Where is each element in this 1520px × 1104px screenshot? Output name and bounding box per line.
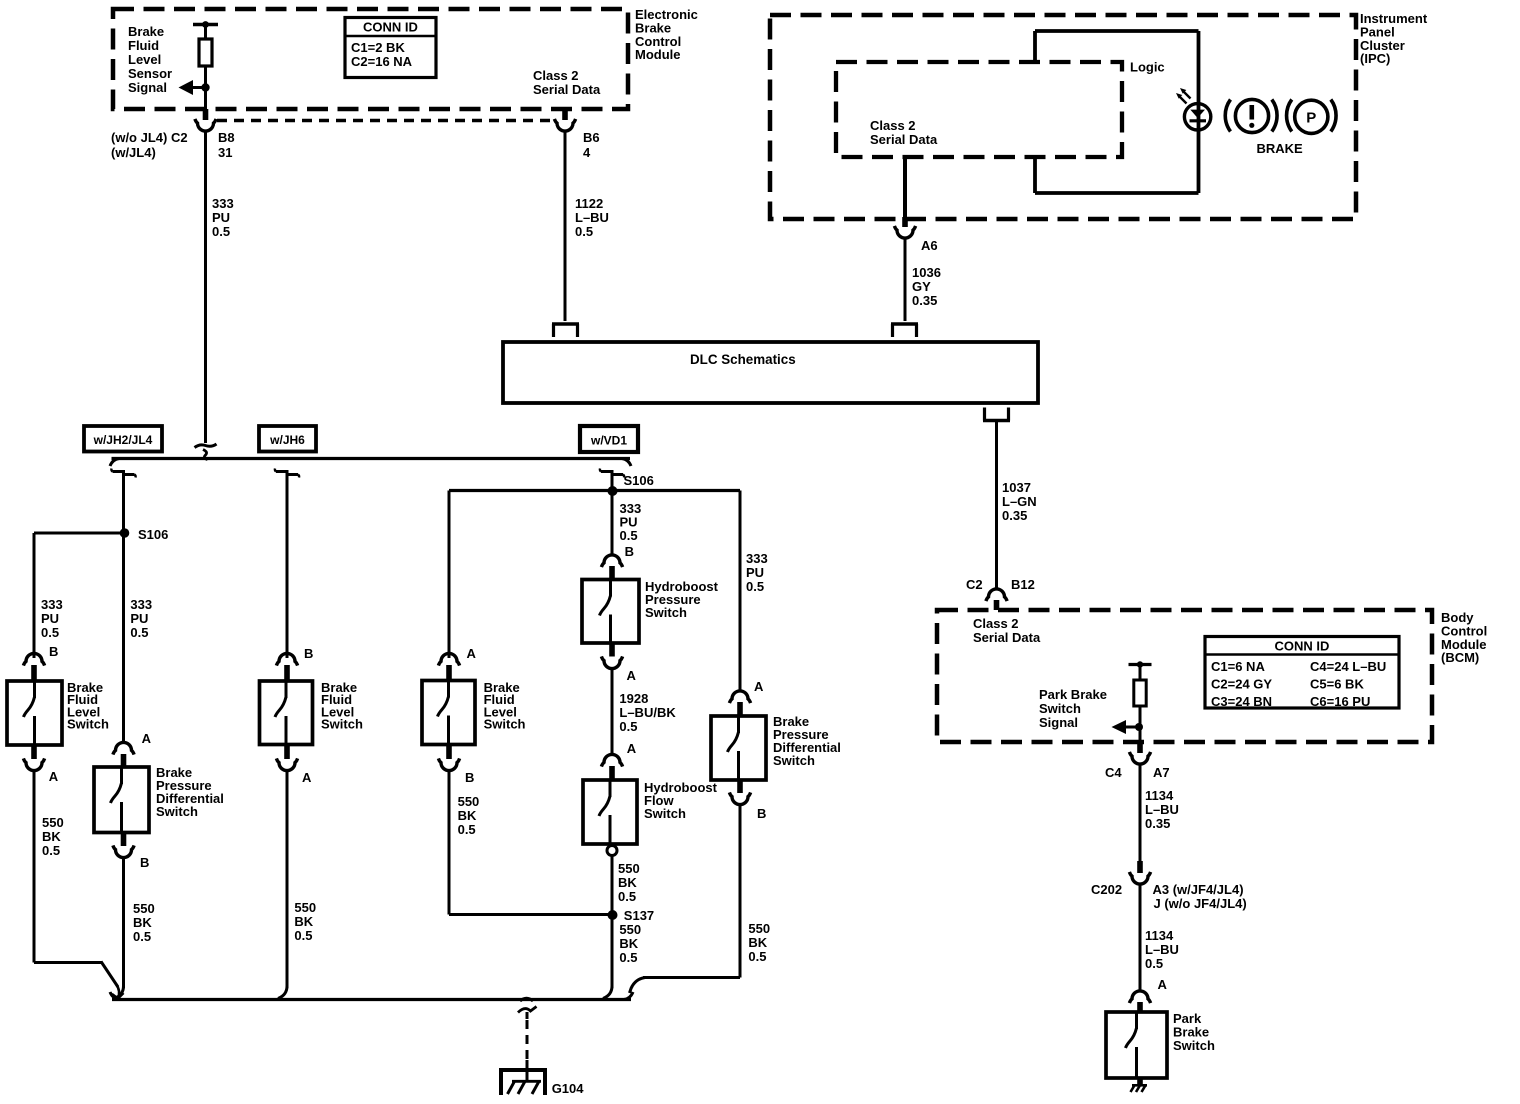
svg-text:B8: B8 (218, 130, 235, 145)
wire to resistor (1139, 665, 1142, 681)
splice S106 (right) (608, 486, 618, 496)
wire: circuit 1134 L-BU 0.35 from BCM to C202 (1139, 764, 1142, 861)
wire: S106 arm to left branch and right branch (449, 489, 740, 492)
open terminal circle at hydroboost flow switch pin (607, 846, 617, 856)
wire: 333 PU from S106 down to BPDS (left) (122, 533, 125, 744)
svg-text:A: A (142, 731, 152, 746)
svg-text:PU: PU (130, 611, 148, 626)
terminal tick at top of EBCM sensor line (193, 23, 218, 26)
svg-text:Switch: Switch (644, 806, 686, 821)
pin stub (1137, 742, 1143, 753)
svg-text:Sensor: Sensor (128, 66, 172, 81)
svg-text:A: A (49, 769, 59, 784)
connector arc: BCM connector C2 pin B12 (986, 589, 1007, 601)
ground stub below park brake switch (1137, 1078, 1143, 1086)
svg-text:L–BU/BK: L–BU/BK (619, 705, 676, 720)
svg-text:Signal: Signal (1039, 715, 1078, 730)
indicator symbol: ((!)) brake warning (1225, 100, 1230, 132)
svg-text:w/VD1: w/VD1 (590, 434, 627, 448)
svg-text:Switch: Switch (484, 717, 526, 732)
svg-text:w/JH6: w/JH6 (269, 433, 305, 447)
wire: right branch 333 PU down to BPDS (right) (739, 491, 742, 693)
resistor: park brake switch pull-up inside BCM (1134, 680, 1146, 706)
bus drop hook under w/VD1 (601, 470, 614, 473)
wire from resistor to signal node (204, 66, 207, 109)
svg-text:PU: PU (212, 210, 230, 225)
switch: Brake Fluid Level Switch (1) (7, 681, 62, 745)
connector arc: IPC pin A6 (894, 226, 915, 238)
connector arc: brake pressure differential switch (left) pin B (113, 845, 134, 857)
indicator symbol: ((P)) park brake (1287, 100, 1292, 132)
connector arc: EBCM C2 pin B8 (195, 119, 216, 131)
svg-text:C4=24 L–BU: C4=24 L–BU (1310, 659, 1386, 674)
svg-text:550: 550 (618, 861, 640, 876)
svg-text:0.5: 0.5 (212, 224, 230, 239)
svg-text:550: 550 (748, 921, 770, 936)
svg-text:0.5: 0.5 (746, 579, 764, 594)
svg-text:L–BU: L–BU (575, 210, 609, 225)
connector arc: brake fluid level switch 2 pin A (276, 758, 297, 770)
svg-text:A: A (1158, 977, 1168, 992)
svg-text:BK: BK (458, 808, 477, 823)
svg-text:B: B (757, 806, 766, 821)
connector arc: BCM connector C4 pin A7 (1129, 752, 1150, 764)
svg-text:0.5: 0.5 (294, 928, 312, 943)
wire: circuit 1037 L-GN 0.35 from DLC to BCM (995, 421, 998, 590)
svg-text:B12: B12 (1011, 577, 1035, 592)
pin stub (609, 566, 615, 580)
option tag box: w/JH6 (259, 426, 316, 452)
wire: circuit 1134 L-BU 0.5 from C202 to park brake switch (1139, 884, 1142, 991)
svg-text:A: A (302, 770, 312, 785)
wire: circuit 1122 L-BU 0.5 from EBCM pin B6 to DLC (564, 131, 567, 321)
svg-text:0.5: 0.5 (748, 949, 766, 964)
svg-text:Logic: Logic (1130, 60, 1165, 75)
svg-text:1122: 1122 (575, 196, 603, 211)
pin stub (31, 745, 37, 759)
svg-text:G104: G104 (552, 1081, 585, 1096)
svg-text:Serial Data: Serial Data (533, 82, 601, 97)
connector arc: brake fluid level switch 3 pin B (438, 758, 459, 770)
wire: circuit 550 BK 0.5 from switch 3 to splice S137 (448, 770, 451, 915)
svg-text:0.5: 0.5 (619, 719, 637, 734)
wire: 333 PU drop under w/JH2/JL4 to S106 (122, 472, 125, 534)
pin stub (994, 600, 1000, 610)
svg-text:Switch: Switch (1173, 1038, 1215, 1053)
terminal bracket: DLC output to BCM (983, 419, 1010, 422)
svg-text:B: B (465, 770, 474, 785)
logic block outline inside IPC (1035, 29, 1199, 33)
svg-text:(w/o JL4) C2: (w/o JL4) C2 (111, 130, 188, 145)
svg-text:C4: C4 (1105, 765, 1122, 780)
wire: circuit 550 BK 0.5 from S137 to ground bus (611, 915, 614, 988)
connector arc: hydroboost pressure switch pin A (601, 656, 622, 668)
svg-text:B: B (304, 646, 313, 661)
svg-text:DLC Schematics: DLC Schematics (690, 352, 796, 367)
wire from terminal to resistor (204, 25, 207, 40)
pin stub (284, 745, 290, 760)
in-line connector C202 pin stub (1137, 861, 1143, 873)
pin stub (1137, 1002, 1143, 1012)
switch: Brake Pressure Differential Switch (left) (94, 767, 149, 833)
svg-text:550: 550 (42, 815, 64, 830)
svg-text:C2: C2 (966, 577, 983, 592)
svg-text:GY: GY (912, 279, 931, 294)
bus gather squiggle to ground wire (520, 998, 533, 1001)
pin stub (737, 780, 743, 793)
option tag box: w/JH2/JL4 (84, 426, 162, 452)
svg-text:B6: B6 (583, 130, 600, 145)
connector face line (dotted) of EBCM connector (217, 119, 553, 122)
svg-text:A: A (754, 679, 764, 694)
wire: Class 2 Serial Data inside IPC down to pin A6 (903, 157, 907, 217)
svg-text:Class 2: Class 2 (533, 68, 579, 83)
svg-text:1928: 1928 (619, 691, 648, 706)
svg-text:333: 333 (41, 597, 63, 612)
svg-text:Switch: Switch (773, 753, 815, 768)
inner dashed box: Class 2 Serial Data block in IPC (836, 62, 1122, 157)
svg-text:Signal: Signal (128, 80, 167, 95)
module box: Instrument Panel Cluster (IPC), dashed outline (770, 15, 1356, 219)
svg-text:(BCM): (BCM) (1441, 650, 1479, 665)
chassis ground marks under park brake switch (1132, 1084, 1147, 1087)
wire (dashed): ground lead to G104 (526, 1020, 529, 1066)
svg-text:0.5: 0.5 (620, 528, 638, 543)
bus end curl left (ground bus) (110, 992, 119, 1000)
svg-text:Module: Module (635, 47, 681, 62)
svg-text:PU: PU (41, 611, 59, 626)
svg-text:B: B (49, 644, 58, 659)
svg-text:S106: S106 (138, 527, 168, 542)
switch: Brake Fluid Level Switch (3) (422, 681, 475, 745)
svg-text:0.5: 0.5 (619, 950, 637, 965)
svg-text:A3 (w/JF4/JL4): A3 (w/JF4/JL4) (1153, 882, 1244, 897)
pin stub (31, 665, 37, 681)
svg-text:0.35: 0.35 (1002, 508, 1027, 523)
conn-id table: BCM CONN ID (1205, 637, 1399, 709)
wire: circuit 1928 L-BU/BK 0.5 between hydroboost switches (611, 668, 614, 756)
resistor: brake fluid level sensor pull-up inside EBCM (199, 39, 212, 66)
svg-text:Class 2: Class 2 (870, 118, 916, 133)
junction dot on sensor signal node (201, 83, 209, 91)
connector arc: brake fluid level switch 3 pin A (438, 653, 459, 665)
svg-text:C1=6 NA: C1=6 NA (1211, 659, 1265, 674)
pin stub A6 at IPC (902, 217, 908, 227)
pin stub (609, 643, 615, 657)
svg-text:P: P (1306, 110, 1316, 127)
option tag box: w/VD1 (580, 426, 638, 452)
connector arc: brake fluid level switch 2 pin B (276, 653, 297, 665)
svg-text:Class 2: Class 2 (973, 616, 1019, 631)
bus wire: options bus (top) (112, 457, 631, 460)
connector arc: brake fluid level switch 1 pin B (23, 653, 44, 665)
svg-text:A6: A6 (921, 238, 938, 253)
connector arc: brake pressure differential switch (right) pin A (729, 691, 750, 703)
svg-text:0.5: 0.5 (133, 929, 151, 944)
pin stub B8 at EBCM (203, 109, 209, 120)
pin stub (609, 766, 615, 780)
switch: Hydroboost Flow Switch (583, 780, 637, 844)
svg-text:S106: S106 (624, 473, 654, 488)
connector arc: brake pressure differential switch (right) pin B (729, 792, 750, 804)
bus wire: ground bus (bottom) (112, 998, 631, 1001)
signal arrow: Park Brake Switch Signal (points left) (1122, 726, 1140, 729)
signal arrow: Brake Fluid Level Sensor Signal (points left) (190, 86, 206, 89)
svg-text:C1=2 BK: C1=2 BK (351, 40, 405, 55)
svg-text:BK: BK (42, 829, 61, 844)
svg-text:Switch: Switch (321, 717, 363, 732)
splice S106 (left) (120, 528, 130, 538)
svg-text:C5=6 BK: C5=6 BK (1310, 677, 1364, 692)
svg-text:Park Brake: Park Brake (1039, 687, 1107, 702)
svg-text:w/JH2/JL4: w/JH2/JL4 (93, 433, 153, 447)
wire: circuit 550 BK 0.5 from flow switch to S137 (611, 856, 614, 915)
splice S137 (608, 910, 618, 920)
svg-text:Level: Level (128, 52, 161, 67)
svg-text:0.5: 0.5 (458, 822, 476, 837)
svg-text:A: A (467, 646, 477, 661)
wire: circuit 333 PU 0.5 from EBCM pin B8 down to options bus (204, 131, 207, 443)
svg-text:A7: A7 (1153, 765, 1170, 780)
svg-text:BK: BK (294, 914, 313, 929)
svg-text:0.35: 0.35 (1145, 816, 1170, 831)
svg-text:550: 550 (133, 901, 155, 916)
svg-text:Brake: Brake (128, 24, 164, 39)
svg-text:0.35: 0.35 (912, 293, 937, 308)
svg-text:C2=24 GY: C2=24 GY (1211, 677, 1272, 692)
svg-text:L–BU: L–BU (1145, 802, 1179, 817)
svg-text:(IPC): (IPC) (1360, 51, 1390, 66)
svg-text:A: A (627, 741, 637, 756)
svg-text:(w/JL4): (w/JL4) (111, 145, 156, 160)
terminal bracket: 1036 GY into DLC (891, 322, 918, 325)
svg-text:0.5: 0.5 (41, 625, 59, 640)
switch: Brake Pressure Differential Switch (right) (711, 716, 766, 780)
svg-text:1134: 1134 (1145, 928, 1174, 943)
svg-text:L–BU: L–BU (1145, 942, 1179, 957)
switch: Brake Fluid Level Switch (2) (260, 681, 313, 745)
svg-text:Switch: Switch (67, 717, 109, 732)
svg-text:BK: BK (133, 915, 152, 930)
bus drop hook under w/JH2/JL4 (113, 470, 126, 473)
switch: Hydroboost Pressure Switch (582, 580, 639, 644)
svg-text:S137: S137 (624, 908, 654, 923)
switch: Park Brake Switch (1106, 1012, 1167, 1078)
svg-text:Serial Data: Serial Data (973, 630, 1041, 645)
svg-text:0.5: 0.5 (618, 889, 636, 904)
wire: circuit 550 BK 0.5 from BPDS (right) to ground bus (739, 804, 742, 978)
svg-text:333: 333 (130, 597, 152, 612)
indicator LED: brake warning lamp on logic block (1184, 104, 1210, 130)
svg-text:Serial Data: Serial Data (870, 132, 938, 147)
conn-id table: EBCM CONN ID (C1=2 BK, C2=16 NA) (345, 18, 436, 78)
wire: S106 branch left (34, 532, 125, 535)
terminal bracket: 1122 L-BU into DLC (552, 322, 579, 325)
wire: circuit 550 BK 0.5 from switch 1 to ground bus (33, 770, 36, 963)
module box: Electronic Brake Control Module (EBCM), dashed outline (113, 9, 628, 109)
wire: 333 PU from S106 down to hydroboost pressure switch (611, 491, 614, 556)
svg-text:L–GN: L–GN (1002, 494, 1037, 509)
svg-text:0.5: 0.5 (130, 625, 148, 640)
svg-text:C3=24 BN: C3=24 BN (1211, 694, 1272, 709)
ground G104 symbol (526, 1060, 529, 1081)
svg-text:Fluid: Fluid (128, 38, 159, 53)
bus end curl left (top bus) (110, 459, 119, 467)
svg-text:550: 550 (619, 922, 641, 937)
svg-text:550: 550 (294, 900, 316, 915)
junction dot on park brake signal node (1135, 723, 1143, 731)
svg-text:333: 333 (746, 551, 768, 566)
svg-text:A: A (627, 668, 637, 683)
svg-text:4: 4 (583, 145, 591, 160)
connector arc: hydroboost flow switch pin A (601, 754, 622, 766)
svg-text:BK: BK (618, 875, 637, 890)
svg-text:CONN ID: CONN ID (363, 20, 418, 35)
svg-text:B: B (140, 855, 149, 870)
svg-text:BK: BK (619, 936, 638, 951)
module box: Body Control Module (BCM), dashed outline (937, 610, 1432, 742)
svg-text:C202: C202 (1091, 882, 1122, 897)
wire: circuit 550 BK 0.5 from BPDS (left) to ground bus (122, 857, 125, 988)
svg-text:0.5: 0.5 (575, 224, 593, 239)
svg-text:Switch: Switch (645, 605, 687, 620)
svg-text:1037: 1037 (1002, 480, 1031, 495)
connector arc: brake pressure differential switch (left) pin A (113, 742, 134, 754)
svg-text:0.5: 0.5 (42, 843, 60, 858)
wire: left branch down to brake fluid level switch 3 (448, 491, 451, 659)
bus end curl right (ground bus) (624, 992, 633, 1000)
svg-text:C6=16 PU: C6=16 PU (1310, 694, 1370, 709)
terminal tick at top of park brake sense line (1129, 663, 1152, 666)
svg-text:1036: 1036 (912, 265, 941, 280)
pin stub (284, 665, 290, 681)
svg-text:Switch: Switch (1039, 701, 1081, 716)
svg-text:BK: BK (748, 935, 767, 950)
pin stub (121, 833, 127, 847)
wire: circuit 1036 GY 0.35 from IPC A6 to DLC (904, 238, 907, 321)
svg-text:C2=16 NA: C2=16 NA (351, 54, 413, 69)
connector arc: brake fluid level switch 1 pin A (23, 758, 44, 770)
LED arrows (light emission) (1180, 97, 1187, 104)
pin stub (121, 754, 127, 767)
svg-text:333: 333 (212, 196, 234, 211)
wire: circuit 550 BK 0.5 from switch 2 to ground bus (286, 770, 289, 988)
svg-text:0.5: 0.5 (1145, 956, 1163, 971)
pin stub (737, 702, 743, 716)
pin stub (446, 745, 452, 760)
svg-text:BRAKE: BRAKE (1257, 141, 1304, 156)
svg-text:J (w/o JF4/JL4): J (w/o JF4/JL4) (1154, 896, 1247, 911)
pin stub B6 at EBCM (562, 109, 568, 120)
wire: drop under w/VD1 to S106 (611, 472, 614, 492)
connector arc: park brake switch pin A (1129, 991, 1150, 1003)
wire from resistor to signal node (1139, 706, 1142, 742)
svg-text:550: 550 (458, 794, 480, 809)
svg-text:Switch: Switch (156, 804, 198, 819)
connector arc: hydroboost pressure switch pin B (601, 555, 622, 567)
connector arc: C202 (1129, 872, 1150, 884)
bus split: feed hook from circuit 333 at top of options bus (195, 444, 217, 448)
svg-text:PU: PU (746, 565, 764, 580)
module box: DLC Schematics (503, 342, 1038, 403)
bus drop hook under w/JH6 (276, 470, 289, 473)
connector arc: EBCM pin B6 (554, 119, 575, 131)
bus end curl right (top bus) (622, 459, 631, 467)
pin stub (446, 665, 452, 681)
wire: drop under w/JH6 to switch 2 (286, 472, 289, 659)
svg-text:CONN ID: CONN ID (1275, 639, 1330, 654)
svg-text:B: B (625, 544, 634, 559)
svg-text:31: 31 (218, 145, 232, 160)
svg-text:1134: 1134 (1145, 788, 1174, 803)
